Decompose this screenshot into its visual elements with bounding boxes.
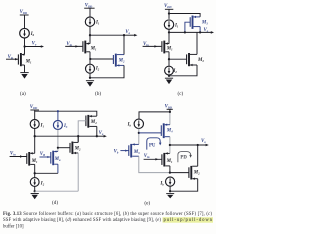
wire M4 gate (e) [139,132,162,134]
wire I1 to node A (b) [89,26,91,43]
wire current source to node Vo (a) [24,38,26,55]
wire Vin to gate of M1 (e) [144,158,162,160]
svg-text:VDD: VDD [30,105,38,110]
current source I1 (b) [85,17,94,26]
svg-text:SSF with adaptive biasing [8],: SSF with adaptive biasing [8], (d) enhan… [3,218,161,223]
junction output node (b) [123,34,125,36]
svg-text:(b): (b) [95,90,101,97]
wire VB to gate of Ma (d) [40,156,51,158]
transistor M1 input follower (c) [162,41,169,54]
wire ground return (d) [35,190,78,192]
junction node B (b) [89,58,91,60]
wire Vin to gate of M1 (b) [65,45,82,47]
svg-text:M2: M2 [118,58,125,63]
svg-text:buffer [10]: buffer [10] [3,224,24,229]
svg-text:VDD: VDD [20,10,28,15]
junction node B (e) [169,171,171,173]
junction Vo at M4 drain (d) [96,135,98,137]
wire gate node to M2 (d) [58,147,70,149]
svg-text:Ib: Ib [127,123,132,128]
svg-text:Fig. 3.13 Source follower buf: Fig. 3.13 Source follower buffers: (a) b… [3,212,212,217]
junction M2 gate node (d) [57,147,59,149]
wire node Vo line (c) [169,31,212,33]
svg-text:Vo: Vo [125,30,130,35]
transistor M1 input follower (d) [27,136,35,173]
transistor M3 level shifter (e) [129,143,139,157]
wire output Vo arrow (b) [124,34,135,36]
transistor Ma adaptive bias (d) [51,150,58,173]
svg-text:pull-up/pull-down: pull-up/pull-down [164,218,213,223]
wire I3 to M2 gate node (d) [57,130,59,152]
junction node A (b) [89,34,91,36]
current source I2 (d) [30,173,39,186]
svg-text:M1: M1 [25,59,32,64]
current source Ib tail (e) [166,177,175,186]
power VDD bar (d) [30,109,39,111]
svg-text:I2: I2 [40,182,45,187]
junction ground node (e) [169,190,171,192]
wire node A to output corner (b) [90,34,124,36]
wire Ib to M3 drain (e) [138,129,140,145]
power VDD bar (c) [165,8,173,10]
wire M3 drain to tail node (e) [139,156,170,172]
wire VDD down (e) [169,109,171,112]
svg-text:VDD: VDD [85,3,93,8]
junction Vo at M4 gate / M2 drain (d) [77,135,79,137]
junction ground node (d) [34,190,36,192]
svg-text:PD: PD [180,155,187,160]
power VDD bar (b) [84,7,94,9]
wire VDD to current source (a) [24,15,26,29]
current source I1 (c) [164,20,173,29]
transistor M2 feedback (c) [169,32,197,75]
svg-text:Ib: Ib [30,32,35,37]
wire I1 to node Vo (c) [168,29,170,44]
power VDD bar (a) [20,14,29,16]
svg-text:PU: PU [149,144,156,149]
svg-text:Vo: Vo [99,131,104,136]
junction ground node (c) [168,75,170,77]
svg-text:M1: M1 [31,159,38,164]
junction VDD rail (c) [168,12,170,14]
svg-text:M1: M1 [90,46,97,51]
wire output node down to M2 drain (b) [123,35,125,54]
junction node Vo (e) [169,144,171,146]
svg-text:VDD: VDD [164,4,172,9]
svg-text:Vo: Vo [201,139,206,144]
ground (e) [166,194,174,199]
junction M4 gate node (e) [138,132,140,134]
current source I2 (c) [165,66,174,75]
wire output Vo arrow (d) [97,135,105,137]
junction Vo at M3 gate (c) [184,31,186,33]
wire source to ground (a) [24,65,26,72]
ground (a) [20,73,28,79]
svg-text:(a): (a) [20,90,26,97]
ground (d) [31,194,39,200]
svg-text:VB: VB [40,152,45,157]
current source Ib (a) [20,28,30,38]
current source I1 (d) [30,111,39,128]
svg-text:M2: M2 [193,170,200,175]
transistor M1 input follower (e) [162,145,170,173]
current source I3 adaptive (d) [53,111,62,129]
current source Ib pull-up (e) [134,119,143,128]
wire I2 to ground (d) [34,186,36,191]
svg-text:M4: M4 [166,129,173,134]
svg-text:M1: M1 [166,46,173,51]
wire I1 to Vo line (d) [34,129,36,137]
svg-text:I3: I3 [63,124,68,129]
wire M1 source to node B (c) [168,52,170,66]
svg-text:(e): (e) [144,199,150,206]
wire node Vo line (d) [35,135,97,137]
wire node B to M2 gate (c) [169,58,187,60]
svg-text:M2: M2 [197,58,204,63]
wire output Vo (a) [25,46,42,48]
wire VDD rail (d) [35,110,97,116]
junction node Vo (a) [23,45,25,47]
wire tail node line (d) [35,172,58,174]
wire Vo line (e) [170,144,207,146]
ground (c) [165,78,173,84]
wire node B to M2 gate (e) [170,172,189,174]
svg-text:I1: I1 [95,21,100,26]
svg-text:Vb: Vb [114,149,119,154]
transistor M2 pull-down (e) [170,166,198,191]
svg-text:(d): (d) [52,199,58,206]
wire I2 to ground node (b) [89,73,91,78]
wire Vin to gate (a) [6,58,18,60]
svg-text:(c): (c) [178,90,184,97]
caption highlight [163,217,214,223]
svg-text:I2: I2 [95,67,100,72]
transistor M1 (a) [18,53,24,66]
junction Vo at M3 drain (c) [199,31,201,33]
transistor M3 adaptive pull-up (c) [185,16,200,33]
wire Vb to gate of M3 (e) [120,150,128,152]
wire VDD to current source I1 (b) [89,8,91,17]
wire Vin to gate of M1 (c) [143,45,162,47]
wire Vin to gate of M1 (d) [10,156,27,158]
transistor M2 feedback (b) [113,54,124,67]
junction rail at I3 (d) [57,110,59,112]
svg-text:M3: M3 [133,150,140,155]
ground (b) [86,81,94,87]
wire M2 source to ground line (d) [77,153,79,191]
junction VDD rail (e) [169,111,171,113]
svg-text:I2: I2 [172,69,177,74]
current source I2 (b) [86,64,95,73]
svg-text:Vin: Vin [144,154,150,159]
junction ground node (b) [89,77,91,79]
svg-text:I1: I1 [174,23,179,28]
transistor M4 pull-up output (e) [161,123,170,145]
wire VDD rail left branch (e) [139,112,170,119]
annotation PU arrow (e) [147,138,162,150]
svg-text:M2: M2 [74,146,81,151]
junction Vo at main branch (c) [168,31,170,33]
svg-text:Ib: Ib [159,182,164,187]
transistor M4 adaptive pull-up (d) [78,115,97,142]
junction node B (c) [168,58,170,60]
transistor M2 pull-down (d) [70,136,78,154]
svg-text:M4: M4 [90,120,97,125]
wire VDD rail to M3 source (c) [169,14,200,17]
wire ground return from M2 source (b) [90,65,124,77]
svg-text:Ma: Ma [54,157,61,162]
svg-text:M3: M3 [201,20,208,25]
svg-text:I1: I1 [40,123,45,128]
power VDD bar (e) [167,108,173,110]
svg-text:M1: M1 [166,159,173,164]
wire M2 drain (e) [197,145,199,166]
wire Ib to ground (e) [169,186,171,191]
annotation PD arrow (e) [178,152,192,163]
junction Vo at M2 drain (e) [197,144,199,146]
junction tail node (d) [34,172,36,174]
svg-text:Vo: Vo [32,42,37,47]
wire VDD down (c) [168,9,170,19]
junction Vo at I1 branch (d) [34,135,36,137]
svg-text:Vin: Vin [10,151,16,156]
wire node B to M2 gate (b) [90,58,113,60]
transistor M1 input follower (b) [83,41,90,54]
svg-text:Vo: Vo [204,28,209,33]
wire M1 source to node B (b) [89,52,91,64]
